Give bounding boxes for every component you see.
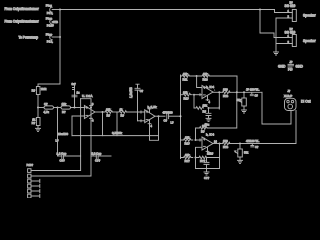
opamp2 loop to V- (150, 116, 159, 140)
op-amp IC1B (145, 106, 155, 128)
label GND jumper block (278, 60, 303, 71)
plug P3 (46, 32, 60, 43)
wire connector pin5 stub (31, 189, 40, 192)
wire to opamp2 (127, 111, 145, 113)
svg-text:U. IC1A: U. IC1A (82, 94, 93, 98)
svg-text:R?b: R?b (223, 94, 229, 98)
svg-text:R?: R? (32, 89, 36, 93)
wire opamp3 output (213, 91, 223, 93)
svg-text:10k: 10k (207, 151, 212, 155)
svg-text:b, IC4: b, IC4 (206, 133, 214, 137)
wire opamp2 output (155, 115, 165, 117)
svg-text:1,0u/63: 1,0u/63 (129, 87, 133, 98)
wire fb right to output (236, 76, 238, 92)
capacitor bias vertical (72, 82, 80, 108)
svg-text:R1?: R1? (185, 159, 191, 163)
resistor stage4 gain2 (196, 151, 220, 163)
svg-text:R?: R? (203, 109, 207, 113)
capacitor snub wire2 (251, 144, 259, 149)
svg-text:C?: C? (140, 89, 144, 93)
svg-text:SG 610: SG 610 (285, 4, 296, 8)
svg-text:C??: C?? (204, 176, 210, 180)
resistor R after opamp1 (105, 107, 113, 117)
node pot1 tap (243, 91, 245, 93)
resistor R2 oval (58, 102, 85, 114)
node plug1 junction (59, 9, 61, 11)
connector SV1 (27, 163, 34, 198)
node opamp1 output (102, 111, 104, 113)
svg-text:Speaker: Speaker (303, 13, 316, 17)
plug P2 (46, 16, 58, 27)
svg-text:C?: C? (255, 145, 259, 149)
svg-text:10k: 10k (185, 153, 190, 157)
resistor R series 2 (119, 107, 127, 117)
wire right rail (180, 76, 182, 158)
ground stage4 (204, 169, 210, 181)
wire output drop to rail (102, 112, 104, 136)
svg-text:4,7u: 4,7u (44, 110, 50, 114)
wire stage4 fb drop (219, 144, 221, 158)
svg-text:R13: R13 (203, 78, 209, 82)
svg-text:Plug: Plug (46, 32, 52, 36)
svg-text:10k: 10k (185, 136, 190, 140)
connector XLR (284, 89, 296, 112)
svg-text:100: 100 (223, 139, 228, 143)
svg-text:From Outputtransformer: From Outputtransformer (5, 20, 40, 24)
wire between resistors (113, 111, 120, 113)
node stage3 fb (196, 75, 198, 77)
pin tick opamp2 plus (140, 120, 142, 122)
ground pot2 (238, 160, 243, 163)
capacitor C bottom 2 (91, 151, 111, 162)
svg-text:3x?: 3x? (72, 82, 77, 86)
capacitor C output coupling (163, 110, 181, 122)
svg-text:L?: L? (171, 121, 175, 125)
speaker SP1 (278, 0, 297, 21)
svg-text:47/100 W..: 47/100 W.. (246, 139, 260, 143)
resistor stage3 fb2 (197, 72, 237, 82)
node opamp2 output (158, 115, 160, 117)
svg-text:R?: R? (201, 130, 205, 134)
ground speakers (274, 52, 279, 55)
capacitor C1 oval (38, 102, 58, 114)
svg-text:JP 100 W..: JP 100 W.. (246, 88, 260, 92)
wire speaker ground return (276, 18, 278, 52)
svg-text:2,2 Cap: 2,2 Cap (92, 151, 102, 155)
svg-text:C?: C? (255, 94, 259, 98)
pin tick opamp2 minus (140, 111, 142, 113)
node input (37, 107, 39, 109)
node gain row (208, 107, 210, 109)
stage4 gain row (181, 153, 193, 163)
wire connector pin4 stub (31, 184, 40, 187)
pin tick (199, 139, 201, 141)
node fb to minus row (90, 107, 92, 109)
svg-text:C??: C?? (60, 159, 66, 163)
node stage4 plus (195, 157, 197, 159)
svg-text:R1?: R1? (185, 142, 191, 146)
node rail tap (57, 107, 59, 109)
node opamp4 output (219, 143, 221, 145)
speaker SP2 (278, 27, 297, 47)
op-amp IC4A (202, 86, 213, 105)
capacitor C 1,0u/63 column (129, 84, 144, 121)
wire R to node (37, 95, 39, 108)
wire top bus horizontal (60, 9, 275, 11)
wire stage4 out to XLR (230, 111, 297, 144)
node cap feeds rail (180, 115, 182, 117)
node opamp3 output (218, 91, 220, 93)
plug P1 (46, 4, 60, 16)
stage4 cap U loop (196, 158, 220, 169)
svg-text:R?: R? (62, 110, 66, 114)
svg-text:R?: R? (32, 121, 36, 125)
ground input divider (36, 126, 41, 132)
svg-text:100: 100 (223, 88, 228, 92)
capacitor stage3 gain (206, 108, 211, 118)
svg-text:2M2: 2M2 (41, 87, 47, 91)
svg-text:XLR-P: XLR-P (284, 94, 292, 98)
node pot2 tap (239, 143, 241, 145)
node poweramp junction (59, 36, 61, 38)
svg-text:10u/100: 10u/100 (58, 132, 69, 136)
svg-text:GND: GND (278, 64, 286, 68)
wire speaker1 feed (275, 10, 278, 13)
capacitor snub wire1 (250, 92, 258, 97)
svg-text:R1?: R1? (184, 96, 190, 100)
svg-text:P10?: P10? (27, 163, 34, 167)
resistor stage4 input (181, 136, 193, 146)
svg-text:P10?: P10? (47, 24, 54, 28)
node bias column (74, 107, 76, 109)
resistor stage3 100 (223, 88, 231, 98)
svg-text:b, 1,5k: b, 1,5k (148, 105, 158, 109)
node stage4 upper input (195, 139, 197, 141)
svg-text:10k: 10k (202, 124, 207, 128)
wire opamp1 output (95, 111, 105, 113)
wire cap to plus input (138, 120, 145, 122)
svg-text:From Outputtransformer: From Outputtransformer (5, 7, 40, 11)
svg-text:10k: 10k (203, 104, 208, 108)
wire gain row to fb vertical (209, 107, 220, 109)
stage3 gain leg (193, 95, 195, 108)
wire top bus vertical (59, 10, 61, 85)
svg-text:R11: R11 (183, 78, 188, 82)
svg-text:0,5/10k: 0,5/10k (112, 131, 122, 135)
wire bottom rail (72, 135, 159, 137)
pin tick (199, 94, 201, 96)
svg-text:C?: C? (44, 102, 48, 106)
opamp1 feedback loop left / riser pin1 (31, 99, 81, 171)
resistor stage4 top (196, 124, 209, 140)
wire opamp4 output (213, 143, 223, 145)
stage3 feedback row (181, 72, 197, 82)
svg-text:C??: C?? (95, 159, 101, 163)
svg-text:10k: 10k (203, 72, 208, 76)
wire tap to rail (116, 112, 118, 136)
wire to triangle4 (196, 139, 203, 141)
svg-text:10k: 10k (183, 72, 188, 76)
capacitor C bottom 1 (57, 151, 81, 162)
node fb joins out (236, 91, 238, 93)
svg-text:R?: R? (121, 113, 125, 117)
wire opamp1 plus leg (72, 116, 85, 136)
svg-text:50k: 50k (237, 98, 242, 102)
potentiometer P2 (235, 144, 249, 161)
resistor R input lower (box) (32, 108, 40, 126)
wire connector pin3 stub (31, 179, 40, 182)
svg-text:C?: C? (164, 118, 168, 122)
wire bus to input (38, 84, 60, 87)
svg-text:10k: 10k (183, 91, 188, 95)
ground pot1 (242, 110, 247, 113)
svg-text:R?: R? (107, 113, 111, 117)
svg-text:P1?,: P1?, (47, 39, 53, 43)
svg-text:GND: GND (296, 64, 304, 68)
svg-text:10k: 10k (62, 102, 67, 106)
wire stage3 fb down to upper input (197, 76, 202, 88)
wire fb output to gain (218, 92, 220, 108)
wire stage3 to XLR (262, 92, 291, 124)
wire rail cap row (57, 108, 59, 157)
wire stage3 out to stage4 input (208, 92, 237, 128)
ground stage3 (205, 118, 212, 126)
resistor stage3 gain (194, 104, 208, 114)
capacitor stage4 gain (204, 158, 209, 169)
svg-text:Speaker: Speaker (303, 39, 316, 43)
svg-text:P1?,: P1?, (47, 11, 53, 15)
svg-text:DI Out: DI Out (301, 99, 311, 103)
wire speaker2 feed (260, 10, 278, 38)
svg-text:JP: JP (290, 60, 293, 64)
svg-text:50k: 50k (244, 150, 249, 154)
resistor stage3 input (181, 91, 193, 101)
svg-text:R?b: R?b (223, 145, 229, 149)
potentiometer P1 (237, 92, 247, 110)
svg-text:470/630: 470/630 (163, 110, 174, 114)
svg-text:Plug: Plug (46, 4, 52, 8)
resistor stage4 100 (223, 139, 231, 149)
opamp1 feedback loop top/right / riser pin2 (31, 99, 91, 176)
svg-text:10k: 10k (106, 107, 111, 111)
resistor R input top (box) (32, 87, 47, 95)
op-amp IC1A (84, 103, 95, 123)
wire connector pin6 stub (31, 194, 40, 197)
node stage3 input (193, 94, 195, 96)
wire input to triangle (194, 94, 202, 96)
op-amp IC4B (202, 137, 217, 156)
wire stage4 plus riser (196, 147, 203, 157)
svg-text:P??: P?? (288, 67, 293, 71)
node speaker branch junction (259, 9, 261, 11)
wire stage3 out to right (230, 91, 263, 93)
svg-text:1,2 Cap: 1,2 Cap (57, 151, 67, 155)
svg-text:To Poweramp: To Poweramp (19, 35, 39, 39)
